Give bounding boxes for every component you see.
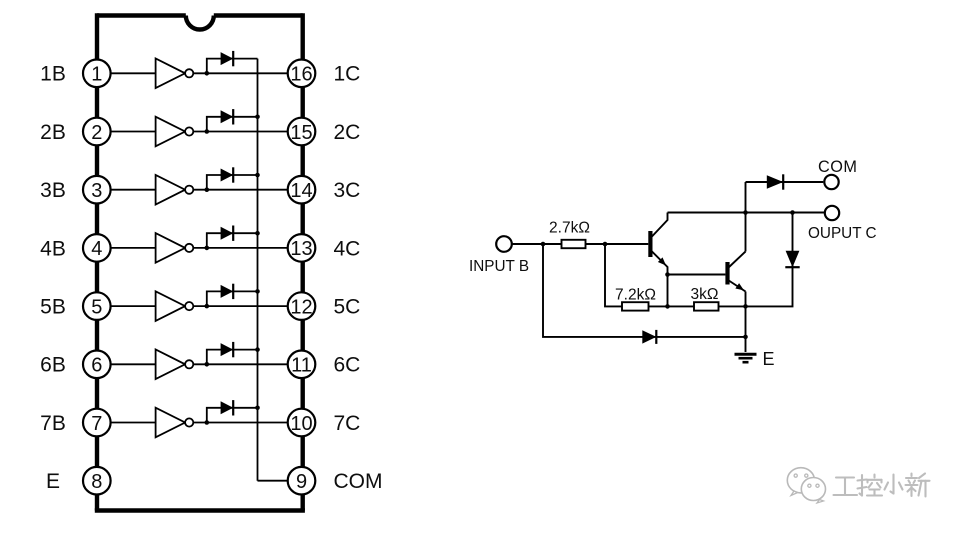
svg-text:6: 6 — [91, 355, 102, 377]
svg-text:2C: 2C — [334, 121, 361, 144]
svg-text:E: E — [763, 349, 775, 369]
svg-text:2.7kΩ: 2.7kΩ — [549, 220, 590, 237]
svg-text:1B: 1B — [40, 63, 66, 86]
svg-text:5C: 5C — [334, 296, 361, 319]
svg-text:1C: 1C — [334, 63, 361, 86]
svg-text:12: 12 — [290, 296, 312, 318]
svg-text:5: 5 — [91, 296, 102, 318]
svg-text:3C: 3C — [334, 179, 361, 202]
svg-text:13: 13 — [290, 238, 312, 260]
svg-text:2: 2 — [91, 122, 102, 144]
svg-text:5B: 5B — [40, 296, 66, 319]
svg-text:14: 14 — [290, 180, 312, 202]
svg-text:10: 10 — [290, 413, 312, 435]
svg-text:11: 11 — [291, 355, 312, 377]
svg-text:3: 3 — [91, 180, 102, 202]
svg-text:8: 8 — [91, 471, 102, 493]
svg-text:COM: COM — [334, 470, 383, 493]
svg-text:3kΩ: 3kΩ — [691, 286, 719, 303]
svg-text:2B: 2B — [40, 121, 66, 144]
svg-text:16: 16 — [290, 64, 312, 86]
svg-text:6B: 6B — [40, 354, 66, 377]
svg-text:4: 4 — [91, 238, 102, 260]
svg-text:INPUT B: INPUT B — [469, 258, 529, 275]
svg-text:4B: 4B — [40, 237, 66, 260]
svg-text:7: 7 — [91, 413, 102, 435]
svg-text:9: 9 — [296, 471, 307, 493]
svg-text:E: E — [46, 470, 60, 493]
svg-text:3B: 3B — [40, 179, 66, 202]
svg-text:OUPUT C: OUPUT C — [808, 225, 877, 242]
svg-text:15: 15 — [290, 122, 312, 144]
svg-text:7.2kΩ: 7.2kΩ — [615, 287, 656, 304]
svg-text:COM: COM — [818, 158, 857, 176]
svg-text:7B: 7B — [40, 412, 66, 435]
svg-text:4C: 4C — [334, 237, 361, 260]
svg-text:6C: 6C — [334, 354, 361, 377]
svg-text:7C: 7C — [334, 412, 361, 435]
svg-text:1: 1 — [91, 64, 102, 86]
